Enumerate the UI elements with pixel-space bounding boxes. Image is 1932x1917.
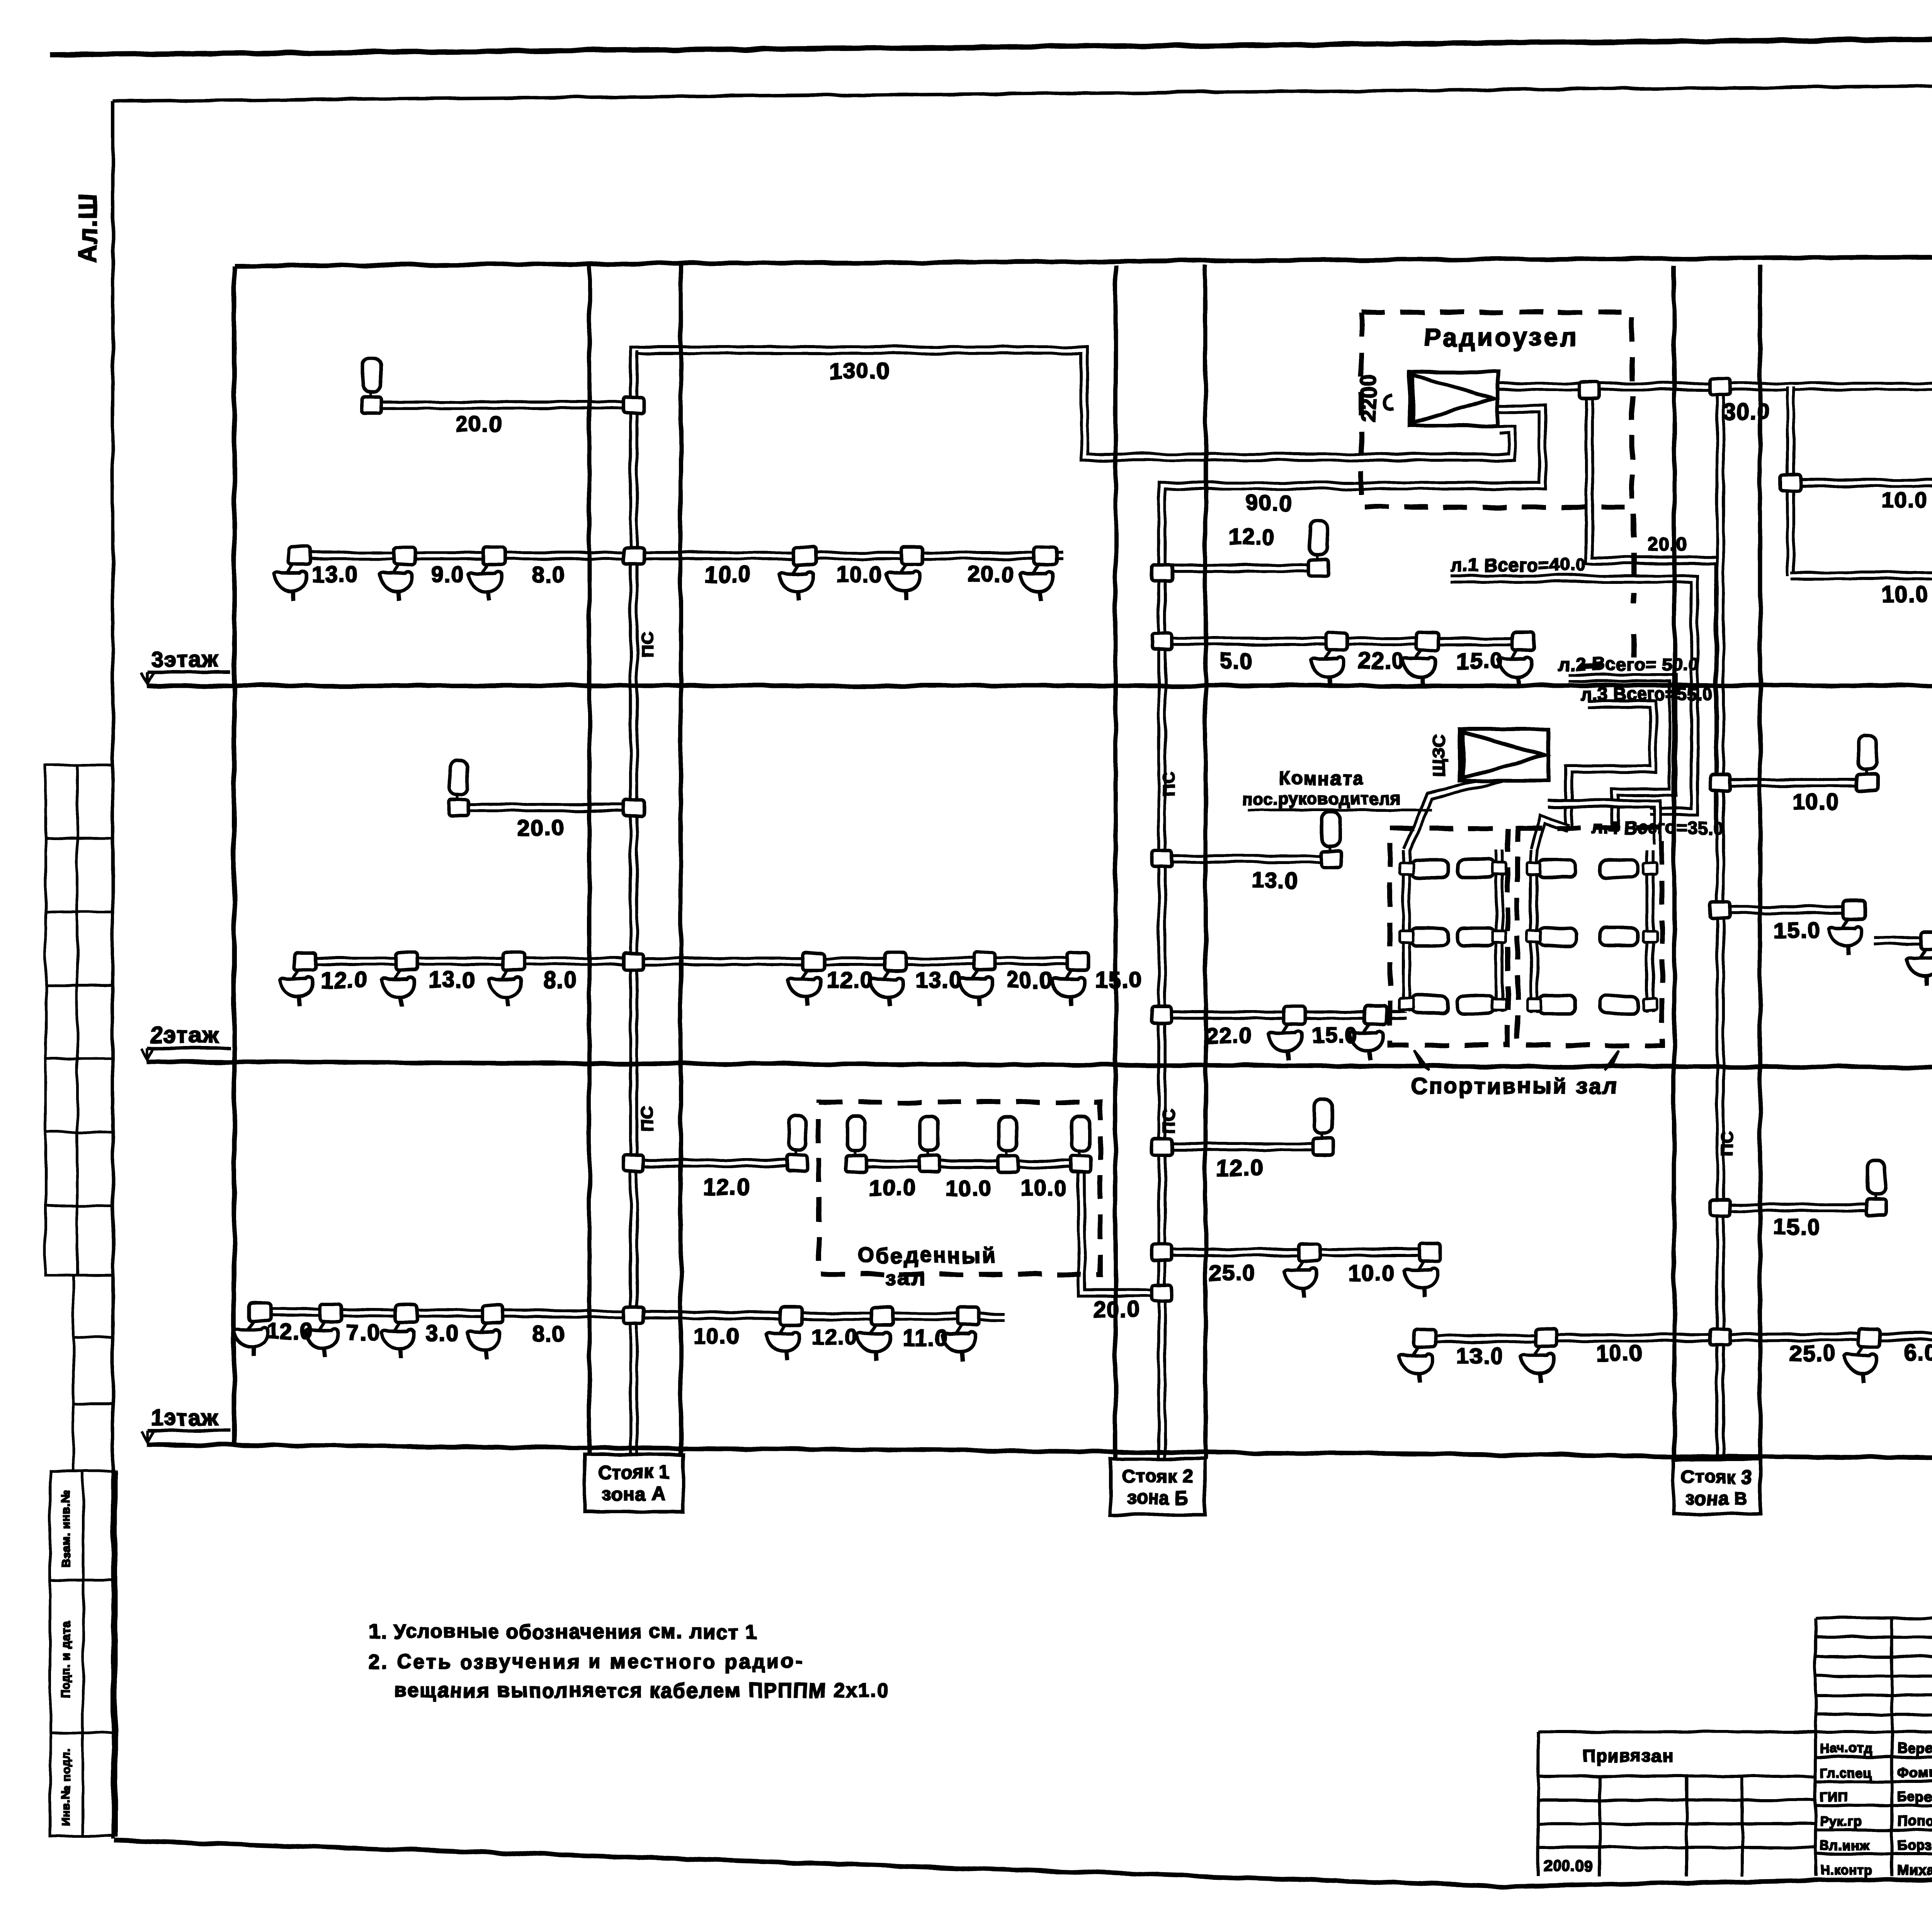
wire: 10.0 speaker run xyxy=(1791,571,1932,580)
terminal 13.0 xyxy=(1321,812,1341,867)
shaft wall right 1 xyxy=(679,265,683,1455)
junction radio output xyxy=(1579,382,1599,398)
sport junction r1 xyxy=(1527,931,1541,942)
wire: 22.0/15.0 run xyxy=(1162,1010,1406,1020)
floor line 2 xyxy=(147,1062,1932,1070)
svg-text:6.0: 6.0 xyxy=(1904,1340,1932,1365)
wire: riser стояк3 xyxy=(1716,386,1725,1468)
svg-text:10.0: 10.0 xyxy=(1793,789,1840,815)
speaker x=2360 floor3 A xyxy=(886,547,923,600)
svg-text:ЩЗС: ЩЗС xyxy=(1429,734,1449,777)
svg-text:5.0: 5.0 xyxy=(1220,648,1253,674)
wire: sport feed left xyxy=(1406,777,1509,850)
sport pill R r1 xyxy=(1539,928,1576,946)
svg-text:10.0: 10.0 xyxy=(1882,582,1929,607)
svg-text:ПС: ПС xyxy=(638,632,657,657)
speaker x=4002 floor1 mid xyxy=(1521,1329,1557,1383)
svg-text:Взам. инв.№: Взам. инв.№ xyxy=(60,1490,72,1567)
speaker 25.0 xyxy=(1284,1243,1320,1297)
wire: luch2 xyxy=(1569,678,1673,828)
dashed shaft extension xyxy=(1565,514,1634,667)
speaker x=1052 floor1 A xyxy=(381,1305,417,1358)
svg-text:Привязан: Привязан xyxy=(1582,1746,1673,1766)
svg-text:10.0: 10.0 xyxy=(1882,488,1929,513)
inner top border xyxy=(113,80,1932,101)
svg-text:зона В: зона В xyxy=(1685,1488,1748,1509)
svg-text:12.0: 12.0 xyxy=(1217,1155,1264,1180)
svg-text:Обеденный: Обеденный xyxy=(857,1243,997,1267)
svg-text:20.0: 20.0 xyxy=(518,815,565,840)
speaker x=790 floor2 A xyxy=(280,953,316,1006)
junction riser2 xyxy=(1152,1244,1172,1260)
amplifier U1 (radio node) xyxy=(1410,372,1498,426)
svg-text:13.0: 13.0 xyxy=(916,968,963,993)
speaker x=4838 floor1 mid xyxy=(1844,1329,1880,1383)
sport junction r0 xyxy=(1400,863,1413,874)
junction 90.0/riser2 xyxy=(1152,565,1172,581)
svg-text:зона А: зона А xyxy=(602,1484,665,1504)
speaker x=2317 floor2 A xyxy=(870,953,906,1006)
wire: floor2 right run with hook xyxy=(1874,941,1932,1032)
speaker x=2505 floor1 A xyxy=(942,1308,979,1361)
speaker x=3560 22/15 run xyxy=(1350,1006,1386,1060)
svg-text:Михайлова: Михайлова xyxy=(1897,1862,1932,1878)
svg-text:ПС: ПС xyxy=(638,1106,657,1131)
microphone hook xyxy=(1384,394,1393,409)
svg-text:20.0: 20.0 xyxy=(456,412,503,437)
svg-text:л.2 Всего= 50.0: л.2 Всего= 50.0 xyxy=(1559,654,1699,674)
wire: 20.0 run floor2 A xyxy=(459,803,634,812)
svg-text:Берестовой: Берестовой xyxy=(1897,1789,1932,1805)
sport pill R r2 xyxy=(1539,996,1576,1014)
terminal 12.0 xyxy=(1313,1100,1333,1155)
svg-text:10.0: 10.0 xyxy=(1596,1341,1643,1366)
svg-text:Стояк 2: Стояк 2 xyxy=(1122,1466,1193,1487)
sport pill L r0 xyxy=(1458,860,1495,878)
svg-text:13.0: 13.0 xyxy=(1457,1343,1503,1368)
speaker x=5001 floor2 right xyxy=(1907,932,1932,985)
sport pill L r2 xyxy=(1458,996,1495,1014)
speaker x=2049 floor1 A xyxy=(766,1307,803,1361)
sport pill L r1 xyxy=(1458,928,1495,946)
wire: luch3 xyxy=(1569,704,1653,828)
svg-text:90.0: 90.0 xyxy=(1246,491,1293,516)
shaft wall left 2 xyxy=(1114,265,1118,1459)
wire: sport feed right xyxy=(1534,819,1569,850)
svg-text:22.0: 22.0 xyxy=(1358,648,1405,674)
wire: floor2 A main run xyxy=(305,957,1078,966)
svg-text:1этаж: 1этаж xyxy=(151,1405,218,1430)
svg-text:ПС: ПС xyxy=(1718,1131,1737,1156)
svg-text:Комната: Комната xyxy=(1279,768,1364,789)
sport junction r1 xyxy=(1643,931,1657,942)
wire: 12.0 terminal run floor1 xyxy=(634,1158,797,1168)
svg-text:12.0: 12.0 xyxy=(321,968,367,993)
wire: main line 30.0/35.0/30.0 xyxy=(1499,382,1932,391)
junction riser2 xyxy=(1152,1139,1172,1155)
floor line 3 xyxy=(147,685,1932,686)
shaft wall right 3 xyxy=(1758,265,1762,1464)
sport pill R r1 xyxy=(1600,928,1638,946)
shaft wall left 1 xyxy=(587,265,592,1455)
junction riser3 xyxy=(1710,1199,1730,1216)
speaker x=857 floor1 A xyxy=(306,1304,342,1357)
svg-text:20.0: 20.0 xyxy=(1007,968,1053,993)
svg-text:13.0: 13.0 xyxy=(1252,868,1299,893)
speaker x=1279 floor3 A xyxy=(469,547,505,600)
svg-text:10.0: 10.0 xyxy=(1021,1175,1068,1201)
svg-text:8.0: 8.0 xyxy=(532,562,566,587)
wire: luch4 to amp2 xyxy=(1548,804,1658,844)
svg-text:20.0: 20.0 xyxy=(1647,533,1687,555)
speaker x=1274 floor1 A xyxy=(467,1305,503,1359)
svg-text:10.0: 10.0 xyxy=(869,1175,916,1201)
wire: riser стояк2 xyxy=(1157,573,1167,1468)
terminal 20.0 floor2 xyxy=(449,760,469,816)
wire: 20.0 drop to sport hall xyxy=(1589,390,1719,828)
junction riser1/floor2 xyxy=(624,953,644,970)
wire: 90.0 feed to стояк2 xyxy=(1162,409,1543,573)
wire: floor3 A main run xyxy=(299,551,1063,560)
sport pill R r2 xyxy=(1600,996,1638,1014)
стояк box Стояк 2 зона Б xyxy=(1111,1459,1205,1515)
svg-text:Радиоузел: Радиоузел xyxy=(1423,323,1579,351)
svg-text:10.0: 10.0 xyxy=(694,1324,740,1349)
svg-text:пос.руководителя: пос.руководителя xyxy=(1242,789,1401,808)
dashed box sport hall right xyxy=(1517,828,1662,1045)
speaker x=1330 floor2 A xyxy=(488,953,525,1006)
sport junction r2 xyxy=(1527,999,1541,1010)
svg-text:200.09: 200.09 xyxy=(1544,1857,1593,1874)
speaker x=3350 22/15 run xyxy=(1269,1006,1305,1060)
junction riser1 xyxy=(624,799,644,816)
dashed box sport hall left xyxy=(1390,828,1508,1045)
wire: sport left col b xyxy=(1495,850,1504,1012)
svg-text:15.0: 15.0 xyxy=(1774,918,1820,943)
svg-text:15.0: 15.0 xyxy=(1312,1023,1359,1048)
svg-text:Фомина: Фомина xyxy=(1897,1764,1932,1780)
svg-text:12.0: 12.0 xyxy=(827,968,874,993)
svg-text:Рук.гр: Рук.гр xyxy=(1820,1814,1862,1829)
terminal 12.0 floor1 xyxy=(787,1116,807,1171)
wire: floor1 mid main run xyxy=(1412,1336,1932,1339)
sport pill L r1 xyxy=(1411,928,1448,946)
speaker x=2706 floor3 A xyxy=(1020,547,1056,600)
wire: dining hall run + 20.0 feed xyxy=(856,1164,1162,1293)
wire: sport right col a xyxy=(1529,850,1539,1012)
wire: 12.0 run xyxy=(1162,563,1318,573)
svg-text:12.0: 12.0 xyxy=(811,1325,858,1350)
junction riser1/floor3 run xyxy=(624,548,644,564)
svg-text:Веремеенк: Веремеенк xyxy=(1897,1740,1932,1756)
bottom border xyxy=(114,1840,1932,1886)
sport pill L r0 xyxy=(1411,860,1448,878)
title block xyxy=(1538,1618,1932,1876)
speaker x=2548 floor2 A xyxy=(959,953,995,1006)
wire: 15.0 run floor2 xyxy=(1720,905,1854,915)
left margin stamp table xyxy=(46,765,113,1471)
sport junction r0 xyxy=(1492,863,1506,874)
wire: floor1 A main run xyxy=(260,1312,1005,1317)
svg-text:Подп. и дата: Подп. и дата xyxy=(60,1621,72,1698)
floor line 1 xyxy=(147,1444,1932,1463)
speaker x=3696 5/22/15 run xyxy=(1403,633,1439,686)
shaft wall right 2 xyxy=(1204,265,1208,1459)
svg-text:12.0: 12.0 xyxy=(703,1175,750,1200)
dashed box Радиоузел xyxy=(1361,312,1632,507)
junction riser1/floor1 xyxy=(624,1307,644,1323)
svg-text:3этаж: 3этаж xyxy=(151,646,218,672)
wire: luch1 xyxy=(1451,579,1694,811)
sport junction r2 xyxy=(1643,999,1657,1010)
speaker 10.0 end xyxy=(1404,1243,1440,1297)
speaker x=1047 floor3 A xyxy=(379,547,415,600)
speaker x=775 floor3 A xyxy=(274,547,310,600)
terminal 15.0 xyxy=(1866,1160,1886,1216)
svg-text:11.0: 11.0 xyxy=(903,1325,948,1351)
dining terminal x=2608 xyxy=(998,1117,1018,1172)
svg-text:25.0: 25.0 xyxy=(1789,1341,1836,1366)
speaker x=2105 floor2 A xyxy=(788,953,824,1006)
sheet top border xyxy=(50,33,1932,55)
svg-text:ПС: ПС xyxy=(1160,1108,1179,1133)
sport junction r0 xyxy=(1643,863,1657,874)
sport junction r2 xyxy=(1492,999,1506,1010)
speaker 15.0 xyxy=(1829,901,1865,955)
dining terminal x=2797 xyxy=(1071,1117,1091,1172)
junction riser1 12.0 xyxy=(624,1155,644,1171)
left frame xyxy=(111,101,115,1839)
speaker x=1053 floor2 A xyxy=(381,953,418,1006)
svg-text:10.0: 10.0 xyxy=(837,562,883,587)
svg-text:Стояк 3: Стояк 3 xyxy=(1681,1467,1752,1487)
wire: 12.0 terminal run xyxy=(1162,1142,1323,1152)
junction drop xyxy=(1781,475,1801,491)
junction riser3 xyxy=(1710,774,1730,791)
speaker x=2788 floor2 A xyxy=(1052,953,1088,1006)
speaker x=3943 5/22/15 run xyxy=(1498,633,1534,686)
svg-text:Спортивный зал: Спортивный зал xyxy=(1411,1073,1618,1099)
svg-text:3.0: 3.0 xyxy=(426,1321,459,1346)
junction riser2 xyxy=(1152,851,1172,867)
svg-text:Инв.№ подл.: Инв.№ подл. xyxy=(60,1748,72,1826)
svg-text:вещания выполняется кабелем ПР: вещания выполняется кабелем ПРППМ 2х1.0 xyxy=(394,1679,890,1702)
svg-text:зона Б: зона Б xyxy=(1126,1488,1189,1509)
svg-text:130.0: 130.0 xyxy=(830,359,889,384)
svg-text:10.0: 10.0 xyxy=(1349,1261,1395,1286)
terminal 10.0 floor2 xyxy=(1857,735,1878,791)
svg-text:20.0: 20.0 xyxy=(968,562,1015,587)
svg-text:9.0: 9.0 xyxy=(432,562,465,587)
left margin strip with rotated labels xyxy=(50,1471,116,1835)
arrow to left box xyxy=(1414,1050,1430,1070)
svg-text:20.0: 20.0 xyxy=(1094,1297,1140,1322)
svg-text:зал: зал xyxy=(886,1266,927,1290)
arrow to right box xyxy=(1604,1050,1619,1070)
junction riser3 xyxy=(1710,902,1730,918)
junction riser2 xyxy=(1152,633,1172,650)
terminal, 20.0 run xyxy=(362,358,382,413)
wire: 15.0 terminal run xyxy=(1720,1203,1876,1212)
svg-text:Н.контр: Н.контр xyxy=(1820,1863,1872,1878)
svg-text:13.0: 13.0 xyxy=(429,968,476,993)
terminal 12.0 xyxy=(1308,521,1328,576)
svg-text:15.0: 15.0 xyxy=(1457,648,1503,674)
svg-text:2200: 2200 xyxy=(1357,374,1380,422)
sport junction r0 xyxy=(1527,863,1541,874)
sport pill R r0 xyxy=(1539,860,1576,878)
svg-text:7.0: 7.0 xyxy=(347,1320,380,1345)
building left wall xyxy=(232,266,236,1445)
junction riser2 xyxy=(1152,1007,1172,1023)
svg-text:Ал.Ш: Ал.Ш xyxy=(73,193,102,263)
стояк box Стояк 1 зона А xyxy=(585,1454,683,1512)
wire: 13.0 terminal run xyxy=(1162,854,1331,864)
svg-text:л.4 Всего=35.0: л.4 Всего=35.0 xyxy=(1592,818,1724,838)
sport junction r1 xyxy=(1492,931,1506,942)
svg-text:12.0: 12.0 xyxy=(1229,525,1276,550)
wire: 20.0 run floor3 A xyxy=(372,400,634,410)
building top wall xyxy=(234,253,1932,266)
wire: drop to 10.0 runs xyxy=(1786,386,1795,576)
svg-text:Гл.спец: Гл.спец xyxy=(1820,1766,1872,1780)
svg-text:10.0: 10.0 xyxy=(946,1175,992,1201)
svg-text:ГИП: ГИП xyxy=(1820,1790,1847,1805)
svg-text:8.0: 8.0 xyxy=(544,968,577,993)
стояк box Стояк 3 зона В xyxy=(1673,1459,1760,1514)
amplifier U2 xyxy=(1460,729,1548,781)
dashed box dining hall xyxy=(819,1102,1100,1274)
svg-text:л.1 Всего=40.0: л.1 Всего=40.0 xyxy=(1451,555,1586,575)
junction dining feed/riser2 xyxy=(1152,1285,1172,1301)
speaker x=2283 floor1 A xyxy=(857,1307,893,1361)
wire: 25.0/10.0 run xyxy=(1162,1248,1430,1257)
speaker x=2083 floor3 A xyxy=(779,547,816,600)
svg-text:Стояк 1: Стояк 1 xyxy=(598,1462,669,1483)
svg-text:ПС: ПС xyxy=(1160,772,1179,797)
speaker x=672 floor1 A xyxy=(234,1303,270,1357)
svg-text:2этаж: 2этаж xyxy=(151,1022,218,1048)
svg-text:30.0: 30.0 xyxy=(1723,399,1770,424)
svg-text:Вл.инж: Вл.инж xyxy=(1820,1839,1869,1853)
wire: sport right col b xyxy=(1645,850,1655,1012)
junction on riser1 xyxy=(624,397,644,413)
dining terminal x=2216 xyxy=(846,1117,866,1172)
svg-text:10.0: 10.0 xyxy=(705,562,752,587)
svg-text:Нач.отд: Нач.отд xyxy=(1820,1741,1873,1756)
svg-text:15.0: 15.0 xyxy=(1095,968,1142,993)
svg-text:8.0: 8.0 xyxy=(532,1322,566,1347)
wire: 130.0 feed стояк1 to radio node xyxy=(634,350,1512,457)
svg-text:25.0: 25.0 xyxy=(1209,1261,1256,1286)
dining terminal x=2405 xyxy=(919,1117,939,1172)
svg-text:1. Условные обозначения см.: 1. Условные обозначения см. лист 1 xyxy=(369,1621,757,1643)
wire: 5.0/22.0/15.0 run xyxy=(1162,637,1526,646)
sport junction r1 xyxy=(1400,931,1413,942)
svg-text:л.3 Всего=55.0: л.3 Всего=55.0 xyxy=(1581,684,1713,704)
svg-text:15.0: 15.0 xyxy=(1774,1214,1820,1240)
wire: 10.0 terminal run floor2 xyxy=(1720,778,1867,787)
svg-text:Попова: Попова xyxy=(1897,1813,1932,1829)
svg-text:13.0: 13.0 xyxy=(312,562,359,587)
sport pill L r2 xyxy=(1411,996,1448,1014)
speaker x=3688 floor1 mid xyxy=(1400,1329,1436,1383)
shaft wall left 3 xyxy=(1672,265,1677,1464)
sport pill R r0 xyxy=(1600,860,1638,878)
speaker x=3458 5/22/15 run xyxy=(1311,633,1347,686)
svg-text:22.0: 22.0 xyxy=(1206,1023,1252,1048)
sport junction r2 xyxy=(1400,999,1413,1010)
wire: riser стояк1 xyxy=(629,350,638,1468)
junction riser3/floor1 xyxy=(1710,1329,1730,1345)
svg-text:2. Сеть озвучения и местного р: 2. Сеть озвучения и местного радио- xyxy=(369,1651,804,1673)
wire: sport left col a xyxy=(1402,850,1411,1012)
svg-text:12.0: 12.0 xyxy=(267,1319,313,1344)
svg-text:Борзенкова: Борзенкова xyxy=(1897,1837,1932,1853)
wire: 10.0 terminal run xyxy=(1791,478,1932,488)
junction riser3 top xyxy=(1710,378,1730,395)
